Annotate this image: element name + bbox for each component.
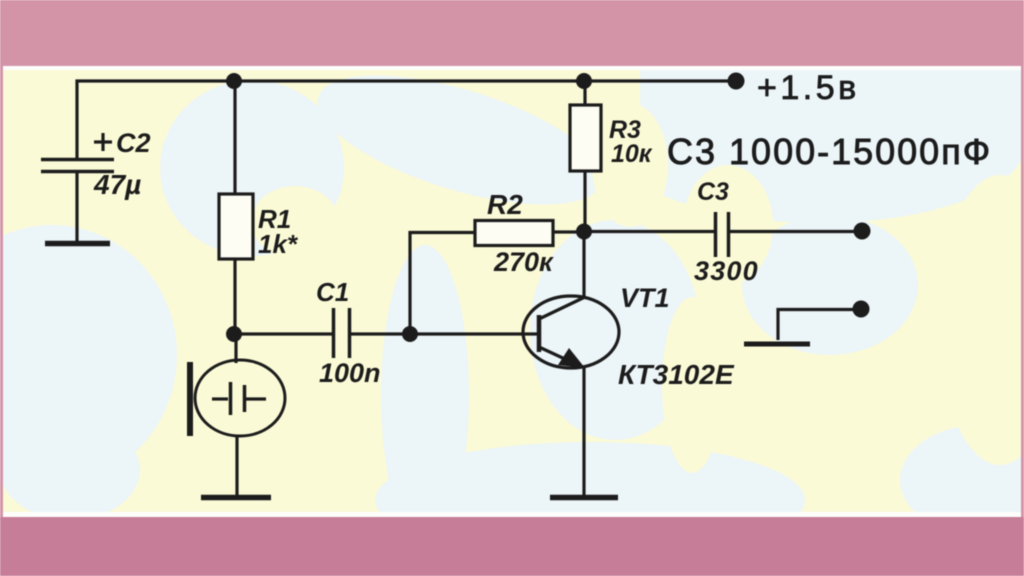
microphone internal capsule left lead xyxy=(212,397,228,400)
svg-text:+1.5в: +1.5в xyxy=(757,69,860,107)
pink frame right sliver xyxy=(1021,66,1024,517)
background yellow wedge at R3 labels xyxy=(592,103,668,227)
junction node collector row xyxy=(576,224,592,240)
ground bar under microphone xyxy=(201,495,271,501)
wire C3 to output terminal xyxy=(730,230,861,233)
svg-text:C3: C3 xyxy=(697,178,729,206)
terminal +1.5v xyxy=(728,73,745,90)
wire C1 to junction xyxy=(351,332,410,335)
resistor R2 body xyxy=(475,221,553,246)
background blue patch around output terminals xyxy=(742,215,918,355)
svg-text:100n: 100n xyxy=(319,358,381,388)
schematic paper background (pale yellow) xyxy=(3,70,1021,512)
wire R3 bottom lead to collector node xyxy=(583,171,586,232)
svg-text:C1: C1 xyxy=(316,277,349,307)
wire C3 left lead xyxy=(584,230,714,233)
background blue blob left-middle xyxy=(0,225,177,485)
svg-text:R2: R2 xyxy=(487,189,523,220)
ground bar under emitter xyxy=(550,495,618,501)
capacitor C3 left plate xyxy=(714,212,718,257)
background blue patch bottom-right corner xyxy=(900,425,1024,535)
microphone internal capsule left plate xyxy=(229,382,233,415)
svg-text:3300: 3300 xyxy=(694,256,759,286)
wire junction to transistor base xyxy=(410,332,538,335)
pink frame left sliver xyxy=(0,66,3,517)
ground bar lower output xyxy=(744,342,810,347)
plus sign of C2 polarity xyxy=(94,133,112,151)
background yellow patch around C3 xyxy=(683,165,773,285)
background blue blob bottom-left corner xyxy=(0,420,140,520)
wire R1 bottom lead xyxy=(233,259,236,334)
white separator strip xyxy=(0,66,1024,517)
transistor VT1 emitter stroke xyxy=(539,347,580,366)
wire collector node to transistor xyxy=(582,232,585,298)
resistor R3 body xyxy=(570,105,601,171)
svg-text:C2: C2 xyxy=(116,128,151,158)
capacitor C1 right plate xyxy=(348,308,352,358)
wire microphone to ground xyxy=(235,436,238,496)
capacitor C3 right plate xyxy=(727,212,731,257)
ground bar under C2 xyxy=(45,241,110,247)
junction node top rail / R1 xyxy=(226,73,242,89)
capacitor C1 left plate xyxy=(332,308,336,358)
wire R1 top lead xyxy=(233,81,236,194)
pink frame bottom band xyxy=(0,517,1024,576)
microphone BM1 body circle xyxy=(195,360,285,436)
wire R2 right lead xyxy=(553,230,584,233)
terminal output lower xyxy=(853,301,870,318)
background yellow strip between VT1 and output ground xyxy=(662,297,722,473)
transistor VT1 body circle xyxy=(523,296,619,368)
background blue vertical band center xyxy=(381,245,469,545)
transistor VT1 emitter arrowhead xyxy=(558,348,585,368)
transistor VT1 base bar xyxy=(537,315,542,352)
background yellow right side xyxy=(938,175,1024,465)
wire C2 to ground xyxy=(75,173,78,242)
resistor R1 body xyxy=(219,194,253,259)
wire junction to microphone xyxy=(234,334,237,363)
background blue patch right of transistor xyxy=(530,220,700,440)
wire lower output terminal L-shape xyxy=(778,310,861,341)
wire R3 top lead xyxy=(583,81,586,105)
background yellow patch at R1 labels xyxy=(251,186,339,258)
svg-text:КТ3102Е: КТ3102Е xyxy=(618,359,735,390)
pink frame top band xyxy=(0,0,1024,66)
transistor VT1 collector stroke xyxy=(539,297,585,319)
junction node base row / C1 xyxy=(402,326,418,342)
capacitor C2 top plate xyxy=(41,158,114,162)
wire base row left (junction to C1) xyxy=(234,332,332,335)
background blue band top-right xyxy=(640,68,1021,138)
microphone internal capsule right lead xyxy=(246,397,266,400)
wire R2 left riser xyxy=(410,233,475,335)
svg-text:VT1: VT1 xyxy=(620,283,670,313)
junction node top rail / R3 xyxy=(576,73,592,89)
microphone left bar xyxy=(187,362,193,436)
wire emitter to ground xyxy=(582,367,585,496)
svg-text:10к: 10к xyxy=(611,140,653,168)
background blue band top-center xyxy=(304,49,616,231)
wire top supply rail xyxy=(77,81,736,158)
svg-text:47µ: 47µ xyxy=(93,169,141,200)
background blue blob top-left xyxy=(160,80,344,256)
terminal output upper xyxy=(854,223,871,240)
svg-text:270к: 270к xyxy=(493,247,554,277)
capacitor C2 bottom plate xyxy=(41,170,114,174)
svg-text:С3 1000-15000пФ: С3 1000-15000пФ xyxy=(667,131,992,172)
svg-text:1k*: 1k* xyxy=(258,229,299,259)
junction node base row / mic xyxy=(226,326,242,342)
background blue bottom band xyxy=(375,442,805,558)
microphone internal capsule right plate xyxy=(243,385,247,412)
